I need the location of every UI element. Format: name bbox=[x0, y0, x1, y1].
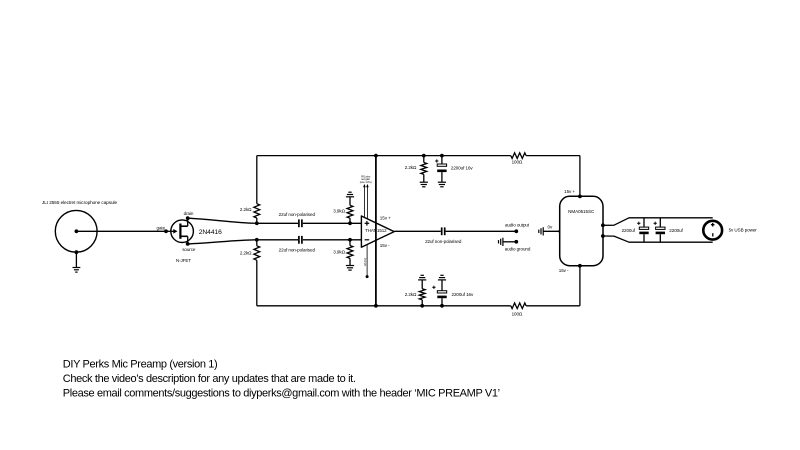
capacitor C4 2200uf 16v bbox=[435, 156, 446, 182]
op-amp U1 THAT 1512 bbox=[361, 216, 394, 247]
svg-text:15v -: 15v - bbox=[559, 268, 569, 273]
label RG gain note bbox=[360, 174, 372, 184]
label C6 2200uf bbox=[622, 228, 636, 233]
pin REF (0v reference) bbox=[363, 245, 369, 279]
svg-text:N-JFET: N-JFET bbox=[176, 258, 191, 263]
svg-text:22uf non-polarised: 22uf non-polarised bbox=[425, 239, 462, 244]
capacitor C2 22uf non-polarised bbox=[299, 236, 302, 244]
svg-text:15v +: 15v + bbox=[380, 216, 391, 221]
svg-text:Please email comments/suggesti: Please email comments/suggestions to diy… bbox=[63, 387, 500, 399]
label microphone capsule bbox=[42, 200, 118, 205]
resistor R8 2.2k&#937; bbox=[419, 280, 425, 306]
node bottom rail R8 junction bbox=[420, 304, 424, 308]
svg-text:NMA0515SC: NMA0515SC bbox=[568, 209, 595, 214]
label C2 22uf non-polarised bbox=[279, 247, 316, 252]
svg-text:2.2kΩ: 2.2kΩ bbox=[405, 165, 417, 170]
label C1 22uf non-polarised bbox=[279, 212, 316, 217]
label R4 3.9k bbox=[333, 250, 345, 255]
node top rail R7 junction bbox=[422, 154, 426, 158]
svg-text:Check the video’s description: Check the video’s description for any up… bbox=[63, 373, 356, 385]
svg-text:2200uf 16v: 2200uf 16v bbox=[452, 292, 475, 297]
wire lower line right segment bbox=[303, 239, 362, 241]
node drain bbox=[186, 216, 190, 220]
wire U2 to +5v rail bbox=[603, 218, 713, 226]
ground GND2 above R3 bbox=[346, 192, 354, 197]
label R7 2.2k bbox=[405, 165, 417, 170]
wire audio ground bbox=[503, 241, 516, 243]
wire upper line right segment bbox=[303, 222, 362, 224]
transistor Q1 2N4416 bbox=[166, 218, 193, 244]
label N-JFET bbox=[176, 258, 191, 263]
svg-text:audio ground: audio ground bbox=[505, 247, 531, 252]
label U2 NMA0515SC bbox=[568, 209, 595, 214]
capacitor C5 2200uf 16v bbox=[432, 280, 446, 306]
resistor R4 3.9k&#937; bbox=[347, 240, 353, 266]
label C7 2200uf bbox=[669, 228, 683, 233]
wire top rail to U2 15v+ pin bbox=[579, 156, 581, 197]
label C5 2200uf 16v bbox=[452, 292, 475, 297]
capacitor C6 2200uf bbox=[637, 218, 649, 242]
wire upper line left segment bbox=[257, 222, 298, 224]
node U2 0v pin bbox=[558, 230, 561, 233]
wire bottom rail bbox=[257, 305, 580, 307]
node R4 lower line junction bbox=[348, 238, 352, 242]
node U2 +5v in pin bbox=[601, 223, 605, 227]
label C4 2200uf 16v bbox=[451, 165, 474, 170]
svg-text:gate: gate bbox=[157, 226, 166, 231]
resistor R3 3.9k&#937; bbox=[347, 197, 353, 224]
node audio ground bbox=[514, 240, 518, 244]
node supply/top rail junction bbox=[374, 154, 378, 158]
svg-text:2N4416: 2N4416 bbox=[199, 229, 222, 236]
svg-text:3.9kΩ: 3.9kΩ bbox=[333, 250, 345, 255]
svg-text:drain: drain bbox=[184, 211, 194, 216]
svg-text:22uf non-polarised: 22uf non-polarised bbox=[279, 247, 316, 252]
label 15v - (U1) bbox=[380, 243, 390, 248]
label audio output bbox=[505, 222, 530, 227]
svg-text:3.9kΩ: 3.9kΩ bbox=[333, 208, 345, 213]
node U2 15v- pin bbox=[578, 264, 582, 268]
svg-text:2200uf: 2200uf bbox=[622, 228, 636, 233]
label 0v bbox=[548, 225, 553, 230]
pin RG2 (gain set) bbox=[366, 184, 369, 219]
ground GND3 below R4 bbox=[346, 266, 354, 271]
label source bbox=[182, 247, 196, 252]
ground GND4 below R7 bbox=[420, 182, 428, 187]
svg-text:ref (0v): ref (0v) bbox=[363, 258, 367, 266]
svg-text:2.2kΩ: 2.2kΩ bbox=[240, 250, 252, 255]
label R5 100 bbox=[512, 160, 523, 165]
ground (mic) bbox=[73, 250, 81, 272]
node gate bbox=[164, 229, 168, 233]
wire source to lower line bbox=[188, 240, 257, 244]
svg-text:15v +: 15v + bbox=[564, 189, 575, 194]
svg-text:22uf non-polarised: 22uf non-polarised bbox=[279, 212, 316, 217]
svg-text:100Ω: 100Ω bbox=[512, 160, 523, 165]
wire mic to gate bbox=[76, 230, 166, 232]
svg-text:15v -: 15v - bbox=[380, 243, 390, 248]
label 15v + (U1) bbox=[380, 216, 391, 221]
ground GND5 below C4 bbox=[438, 182, 446, 187]
node U2 15v+ pin bbox=[578, 195, 582, 199]
svg-text:(use 1.8 k): (use 1.8 k) bbox=[360, 180, 372, 184]
label Q1 value 2N4416 bbox=[199, 229, 222, 236]
node source bbox=[186, 242, 190, 246]
label R8 2.2k bbox=[405, 292, 417, 297]
label 15v - (U2) bbox=[559, 268, 569, 273]
label R6 100 bbox=[512, 312, 523, 317]
svg-text:source: source bbox=[182, 247, 196, 252]
node R1 upper line junction bbox=[255, 221, 259, 225]
node R3 upper line junction bbox=[348, 221, 352, 225]
wire U1 output to C3 bbox=[394, 230, 441, 232]
svg-text:THAT 1512: THAT 1512 bbox=[365, 228, 387, 233]
label R3 3.9k bbox=[333, 208, 345, 213]
svg-text:DIY Perks Mic Preamp (version: DIY Perks Mic Preamp (version 1) bbox=[63, 359, 218, 371]
svg-text:100Ω: 100Ω bbox=[512, 312, 523, 317]
wire U2 to 0v rail bbox=[603, 236, 713, 242]
label 15v + (U2) bbox=[564, 189, 575, 194]
wire 0v to U2 bbox=[543, 230, 560, 232]
wire C3 to audio output bbox=[446, 230, 517, 232]
resistor R7 2.2k&#937; bbox=[421, 156, 427, 182]
ground GND9 0v reference bbox=[539, 227, 543, 235]
battery P1 5v USB power bbox=[703, 221, 722, 240]
svg-text:2200uf 16v: 2200uf 16v bbox=[451, 165, 474, 170]
wire supply rail V+/V- through U1 bbox=[375, 156, 377, 306]
node supply/bottom rail junction bbox=[374, 304, 378, 308]
svg-text:2200uf: 2200uf bbox=[669, 228, 683, 233]
wire U2 15v- pin to bottom rail bbox=[579, 266, 581, 306]
label 5v USB power bbox=[729, 228, 758, 233]
label U1 THAT 1512 bbox=[365, 228, 387, 233]
resistor R1 2.2k&#937; bbox=[254, 156, 260, 224]
node audio output bbox=[514, 229, 518, 233]
notes text bbox=[63, 359, 500, 400]
ground GND8 audio ground bbox=[499, 238, 503, 246]
capacitor C3 22uf non-polarised bbox=[442, 227, 445, 235]
svg-text:JLI 2555 electret microphone c: JLI 2555 electret microphone capsule bbox=[42, 200, 118, 205]
label R1 2.2k bbox=[240, 207, 252, 212]
svg-text:5v USB power: 5v USB power bbox=[729, 228, 758, 233]
label audio ground bbox=[505, 247, 531, 252]
node top rail C4 junction bbox=[440, 154, 444, 158]
wire lower line left segment bbox=[257, 239, 298, 241]
svg-text:2.2kΩ: 2.2kΩ bbox=[405, 292, 417, 297]
pin RG1 (gain set) bbox=[363, 184, 366, 218]
label R2 2.2k bbox=[240, 250, 252, 255]
node R2 lower line junction bbox=[255, 238, 259, 242]
resistor R5 100&#937; bbox=[511, 153, 526, 159]
capacitor C1 22uf non-polarised bbox=[299, 219, 302, 227]
ground GND7 above C5 bbox=[438, 275, 446, 280]
node U2 0v in pin bbox=[601, 234, 605, 238]
label drain bbox=[184, 211, 194, 216]
wire drain to upper line bbox=[188, 218, 257, 223]
svg-text:2.2kΩ: 2.2kΩ bbox=[240, 207, 252, 212]
resistor R2 2.2k&#937; bbox=[254, 240, 260, 306]
microphone MK1 JLI 2555 electret capsule bbox=[55, 210, 97, 252]
ground GND6 above R8 bbox=[418, 275, 426, 280]
resistor R6 100&#937; bbox=[511, 303, 526, 309]
capacitor C7 2200uf bbox=[654, 218, 665, 242]
label C3 22uf non-polarised bbox=[425, 239, 462, 244]
svg-text:audio output: audio output bbox=[505, 222, 530, 227]
wire top rail bbox=[257, 155, 580, 157]
svg-text:0v: 0v bbox=[548, 225, 553, 230]
dc-dc converter U2 NMA0515SC bbox=[560, 196, 603, 265]
node bottom rail C5 junction bbox=[440, 304, 444, 308]
label gate bbox=[157, 226, 166, 231]
